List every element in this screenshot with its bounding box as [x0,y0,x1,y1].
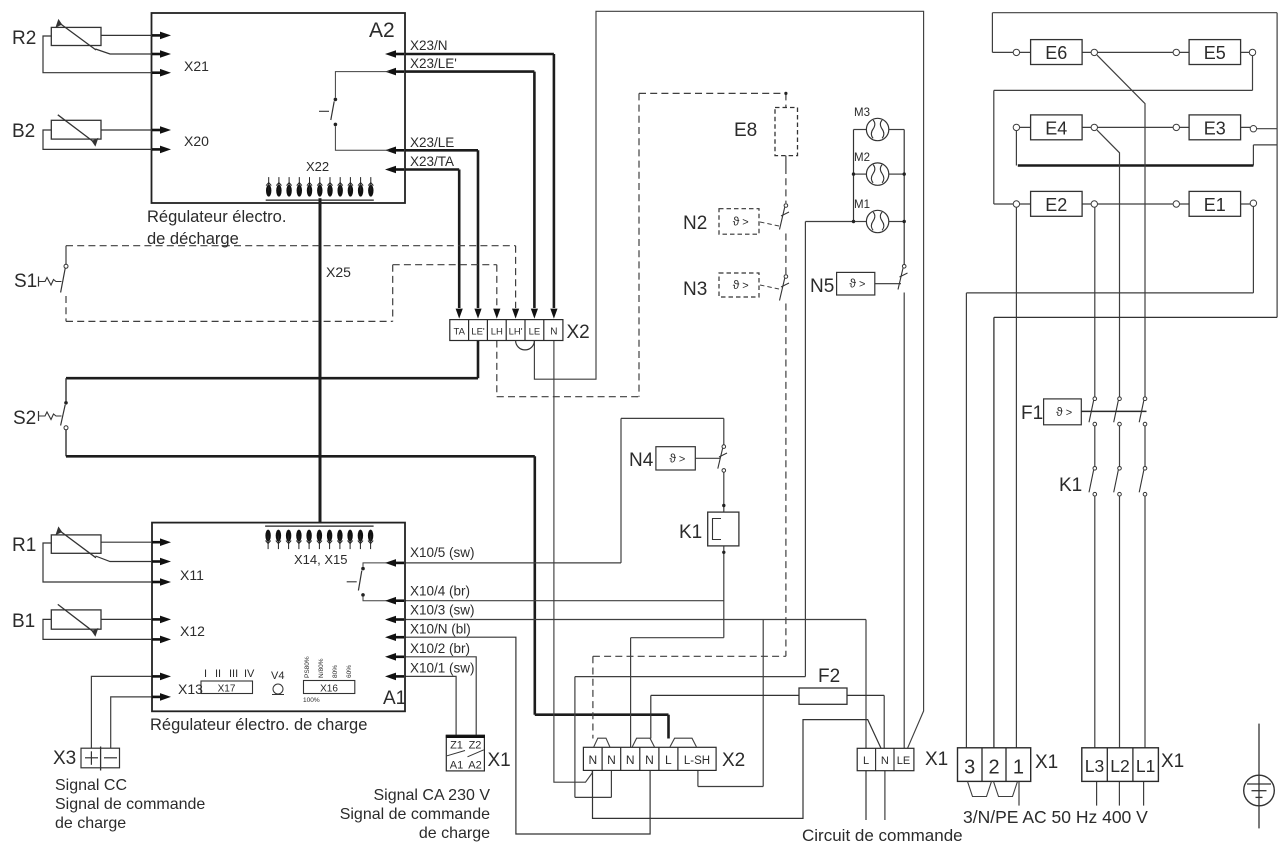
plug hook below X1 terminals 3-2 [968,781,992,796]
terminal arrow X2 upper [512,309,519,319]
connector arrow pin X10/3 [394,618,404,621]
terminal X1 (L3 L2 L1 mains) [1082,748,1159,782]
connector arrow pin X21.3 [152,71,162,74]
svg-text:>: > [742,216,748,228]
svg-text:X1: X1 [488,750,511,771]
wire S1 dashed loop bottom [66,320,393,322]
svg-text:60%: 60% [346,665,353,678]
fan motor M2 [866,163,888,185]
junction above K1 coil [722,504,725,507]
connector arrow pin X21.2 [152,53,162,56]
connector arrow pin X10/1 [394,675,404,678]
wire through fuse F2 [651,694,884,696]
wire E4 right diagonal to F1 pole 2 [1097,130,1120,397]
wire fuse right into X1 N terminal [883,695,885,748]
wire M2 right stub [889,173,904,175]
fan motor M3 [866,118,888,140]
regulator A1 box [152,523,405,712]
wire R2 wiper to X21 pin2 [96,49,153,54]
connector arrow pin X21.1 [152,34,162,37]
wire riser into X2 lower L-SH bottom [697,770,699,786]
connector arrow pin X13.2 [152,696,162,699]
wire S1 dashed loop top [66,245,516,247]
thermostat N2 [719,209,759,235]
wire into plug hook over L [667,715,670,739]
wire below X1 L [865,771,867,820]
connector X14/X15 pin row [265,526,374,549]
wire top rail [992,12,1277,14]
wire X25 ribbon cable A2 to A1 [319,198,322,522]
terminal circle heater bank [1013,124,1019,130]
wire X2 upper N down to lower X2 N cell [554,341,592,783]
wire L-SH loop horizontal [698,786,763,788]
wire M1 feed horizontal [805,221,853,223]
wire E3 row [1180,126,1251,128]
heating element E2 [1031,191,1083,216]
svg-text:>: > [1066,407,1072,419]
wire E6 right diagonal to F1 pole 3 [1097,55,1145,397]
wire fan right bus down to N5 switch [903,130,905,265]
wire N5 to its switch [875,283,901,285]
wire S2 top to X2 LE&#39; bottom [66,377,478,380]
wire R1 wiper to X11 pin2 [96,556,153,562]
wire X23/TA vertical to X2 terminal TA [458,170,461,309]
svg-text:A2: A2 [369,19,395,42]
svg-text:Circuit de commande: Circuit de commande [802,826,963,845]
connector arrow pin X10/4 [394,599,404,602]
wire N4 switch to K1 coil [723,472,725,512]
svg-text:V4: V4 [271,670,284,682]
wire X10/1 (sw) to X1 Z1 [405,676,456,735]
wire N4 to its switch [695,457,720,459]
connector arrow pin X10/2 [394,655,404,658]
svg-text:N: N [626,753,635,767]
connector arrow pin X11.2 [152,560,162,563]
plug hook over X2 lower N1-N2 [594,738,610,747]
svg-text:I: I [204,668,207,680]
terminal circle heater bank [1173,124,1179,130]
svg-text:80%: 80% [332,665,339,678]
wire fuse left into X2 lower N4 plug [650,695,652,738]
wire E6 to E5 [1098,51,1173,53]
wire second rail drop to E2 [993,90,995,204]
svg-text:X1: X1 [1035,752,1058,773]
svg-text:X10/3 (sw): X10/3 (sw) [410,603,475,618]
plug hook below X1 terminals 2-1 [994,781,1018,796]
thermostat N3 [719,273,759,297]
terminal circle heater bank [1173,201,1179,207]
svg-text:X23/LE: X23/LE [410,135,454,150]
heating element E5 [1189,40,1241,65]
wire thick mid rail [1018,164,1254,166]
K1 contactor pole [1139,467,1147,497]
terminal X1 (L N LE control circuit) [857,748,914,770]
wire dashed below X2 LH [496,341,498,397]
svg-text:L: L [665,753,672,767]
svg-text:X10/2 (br): X10/2 (br) [410,641,470,656]
connector arrow pin X10/5 [394,562,404,565]
wire dashed drop to X2 LH&#39; [515,246,517,308]
terminal X1 (3 2 1 mains) [958,748,1031,782]
indicator V4 [271,670,284,695]
svg-text:R1: R1 [12,535,36,556]
wire down to X1 terminal 3 [965,293,967,748]
wire edge rail return [994,316,1277,318]
wire R1 to X11 pin1 [101,541,152,543]
svg-text:>: > [679,453,685,465]
svg-text:Signal de commande: Signal de commande [340,806,490,823]
svg-text:LE: LE [897,755,910,767]
K1 contactor pole [1089,467,1097,497]
svg-text:III: III [229,668,238,680]
terminal circle heater bank [1250,200,1256,206]
terminal circle heater bank [1173,49,1179,55]
wire B1 return to X12 pin2 [43,619,152,639]
F1 pole contact [1114,397,1122,426]
wire below X1 N [884,771,886,820]
wire L line down to X1 L terminal [865,620,867,749]
svg-text:B2: B2 [12,121,35,142]
F1 trip bar [1081,410,1146,412]
junction fan right bus M2 [903,172,906,175]
svg-text:X2: X2 [722,750,745,771]
wire X10/N (bl) to X2 lower N4 bottom [405,637,650,834]
svg-text:ϑ: ϑ [733,214,740,228]
wire M3 left stub [854,129,867,131]
svg-text:K1: K1 [1059,475,1082,496]
connector X17 with positions I II III IV [201,668,255,695]
connector arrow pin X11.1 [152,541,162,544]
wire dashed E8 branch vertical [638,93,640,396]
wire X2 LE to LE terminal (long PE run) [534,11,923,748]
svg-text:X3: X3 [53,748,76,769]
thermostat N5 [837,272,875,295]
wire riser into X2 lower N2 bottom [610,770,612,797]
wire PE below X1 terminal 1 [1018,781,1020,805]
wire E4 row [1020,126,1091,128]
svg-text:Régulateur électro. de charge: Régulateur électro. de charge [150,716,367,734]
svg-text:TA: TA [453,327,465,338]
switch contact of N2 [780,204,790,230]
svg-text:1: 1 [1013,757,1024,779]
junction fan right bus M1 [903,220,906,223]
wire E6 row [1020,51,1091,53]
svg-text:N4: N4 [629,450,654,471]
svg-text:S1: S1 [14,271,37,292]
svg-text:L: L [863,755,869,767]
svg-text:M2: M2 [854,152,870,164]
wire X23/N vertical to X2 terminal N [553,54,556,308]
svg-text:100%: 100% [303,697,320,704]
wire X10/2 (br) to X1 Z2 [405,657,476,735]
svg-text:X10/5 (sw): X10/5 (sw) [410,545,475,560]
svg-text:X11: X11 [180,567,204,583]
wire F1 to K1 pole [1119,426,1121,467]
svg-text:X23/N: X23/N [410,38,448,53]
wire B2 return to X20 pin2 [43,130,152,149]
svg-text:F2: F2 [818,666,840,687]
svg-text:X23/LE': X23/LE' [410,56,457,71]
wire E1 right drop [1252,207,1254,293]
wire riser into X2 LE&#39; cell bottom [477,341,480,379]
svg-text:ϑ: ϑ [849,277,856,291]
svg-text:ϑ: ϑ [733,278,740,292]
wire below L3 [1096,781,1098,805]
svg-text:X10/N (bl): X10/N (bl) [410,622,471,637]
wire K1 pole down to X1 terminal [1119,497,1121,748]
svg-text:Signal de commande: Signal de commande [55,796,205,813]
wire into N4 switch [723,418,725,444]
svg-text:X10/1 (sw): X10/1 (sw) [410,661,475,676]
svg-text:X25: X25 [326,264,351,280]
terminal X3 (DC control signal) [81,747,120,771]
fuse F2 [799,688,847,704]
svg-text:N: N [607,753,616,767]
connector arrow pin X20.2 [152,148,162,151]
svg-text:3/N/PE AC 50 Hz 400 V: 3/N/PE AC 50 Hz 400 V [963,807,1148,827]
wire E3 right to edge rail [1257,128,1277,130]
svg-text:R2: R2 [12,28,36,49]
switch S2 (charge enable contact) [39,401,69,430]
svg-text:X10/4 (br): X10/4 (br) [410,584,470,599]
switch contact of N4 [718,445,727,472]
connector arrow pin X23/LE [394,149,404,152]
terminal circle heater bank [1013,201,1019,207]
svg-text:L3: L3 [1085,756,1104,776]
svg-text:2: 2 [988,757,999,779]
connector arrow pin X23/N [394,53,404,56]
wire E2 right down to F1 pole 1 [1094,207,1096,397]
svg-text:E2: E2 [1045,195,1067,215]
junction at E8 top corner [784,92,787,95]
svg-text:ϑ: ϑ [1056,405,1063,419]
heating element E3 [1189,115,1241,140]
switch S1 (room thermostat contact) [39,264,69,292]
svg-text:A1: A1 [383,688,406,709]
wire E5 right drop [1252,56,1254,91]
wire S2 upper lead [65,378,67,401]
wire E2 row [1020,203,1091,205]
wire dashed into plug hook over N [592,656,594,738]
svg-text:E6: E6 [1045,43,1067,63]
connector arrow pin X20.1 [152,129,162,132]
connector arrow pin X12.2 [152,638,162,641]
wire dashed E8 top lead [785,93,787,107]
connector arrow pin X23/TA [394,168,404,171]
wire dashed N2 to N3 switch [785,234,787,276]
wire E2 left down to X1 terminal 1 [1015,207,1017,748]
svg-text:N2: N2 [683,213,707,234]
wire below L2 [1118,781,1120,805]
wire X23/N horizontal [405,53,554,56]
terminal strip X2 (upper, TA LE' LH LH' LE N) [450,320,563,341]
wire below L1 [1143,781,1145,805]
svg-text:B1: B1 [12,611,35,632]
wire fan return horizontal [575,676,806,678]
wire S2 vertical drop [533,456,536,714]
svg-text:M3: M3 [854,107,870,119]
wire top rail drop to E6 [991,13,993,53]
wire X23/LE&#39; horizontal [405,70,534,73]
thermistor B1 (charge sensor) [51,610,101,629]
wire X23/LE horizontal [405,149,478,152]
switch inside A2 (discharge control contact) [319,72,389,151]
ground (protective earth symbol) [1244,724,1275,829]
wire F1 to K1 pole [1094,426,1096,467]
wire K1 coil return [723,546,725,638]
svg-text:IV: IV [244,668,255,680]
wire branch to fuse and L-SH [762,620,764,787]
svg-text:X21: X21 [184,58,209,74]
wire dashed to E8 top [639,92,786,94]
junction fan left bus M2 [852,172,855,175]
terminal circle heater bank [1249,49,1255,55]
terminal circle heater bank [1013,49,1019,55]
terminal strip X2 (lower, N N N N L L-SH) [583,747,716,770]
svg-text:X2: X2 [567,322,590,343]
svg-text:II: II [215,668,221,680]
svg-text:ϑ: ϑ [669,451,676,465]
svg-text:LH: LH [491,327,503,338]
svg-text:N: N [645,753,654,767]
K1 contactor pole [1114,467,1122,497]
svg-text:N: N [588,753,597,767]
heating element E4 [1031,115,1083,140]
svg-text:S2: S2 [13,408,36,429]
terminal arrow X2 upper [474,309,481,319]
svg-text:E1: E1 [1204,195,1226,215]
wire S1 upper lead [65,246,67,264]
wire down to X1 terminal 2 [993,317,995,747]
wire over N4 [621,417,724,419]
wire B2 to X20 pin1 [101,129,152,131]
wire S1 dashed riser [392,265,394,322]
svg-text:M1: M1 [854,199,870,211]
wire E4 to E3 [1098,126,1173,128]
svg-text:E5: E5 [1204,43,1226,63]
svg-text:K1: K1 [679,522,702,543]
connector arrow pin X13.1 [152,675,162,678]
wire jog drop [1252,145,1254,166]
wire K1 pole down to X1 terminal [1144,497,1146,748]
svg-text:L-SH: L-SH [684,755,710,767]
plug hook over X2 lower L/L-SH [670,738,697,747]
svg-text:Régulateur électro.: Régulateur électro. [147,208,286,226]
terminal arrow X2 upper [531,309,538,319]
connector arrow pin X11.3 [152,581,162,584]
wire X10/4 (br) to K1 branch [405,600,724,602]
svg-text:X22: X22 [306,159,329,174]
wire dashed LH to E8 branch horizontal [497,396,639,398]
wire X23/TA horizontal [405,168,459,171]
svg-text:A2: A2 [468,759,481,771]
svg-text:X12: X12 [180,623,205,639]
svg-text:E4: E4 [1045,118,1067,138]
svg-text:N3: N3 [683,279,707,300]
connector X22 pin row [266,177,374,200]
svg-text:3: 3 [964,757,975,779]
svg-text:>: > [742,280,748,292]
wire S2 lower lead [65,430,67,456]
wire M3 right stub [889,129,904,131]
jumper link LH&#39;-LE on X2 [516,341,535,350]
wire fan left bus [853,130,855,222]
wire E1 return rail [966,292,1253,294]
wire R2 to X21 pin1 [101,34,152,36]
svg-text:X1: X1 [1161,751,1184,772]
plug hook over X2 lower N3-N4 [632,738,654,747]
wire jog to thick rail [1253,144,1277,146]
svg-text:N: N [550,327,557,338]
svg-text:A1: A1 [450,759,463,771]
heating element E6 [1031,40,1083,65]
wire X23/LE&#39; vertical to X2 terminal LE [533,72,536,308]
F1 pole contact [1089,397,1097,426]
junction below K1 coil [722,551,725,554]
wire K1 pole down to X1 terminal [1094,497,1096,748]
wire second rail [994,89,1253,91]
wire fan return vertical [804,222,806,677]
wire X10/5 (sw) [405,562,621,564]
connector arrow pin X23/LE&#39; [394,70,404,73]
wire fan return drop [574,677,576,798]
svg-text:X20: X20 [184,133,209,149]
svg-text:de charge: de charge [419,825,490,842]
relay coil K1 [708,512,739,546]
wire fan return under X2 lower [575,796,612,798]
wire dashed return to X2 lower [593,655,786,657]
wire M1 right stub [889,221,904,223]
wire X2 lower N1 to X1 N terminal [593,720,882,819]
connector X16 with tap labels [303,656,355,704]
svg-text:Signal CC: Signal CC [55,777,127,794]
svg-text:LH': LH' [509,327,523,338]
wire E8 bottom lead [785,156,787,167]
svg-text:F1: F1 [1021,403,1043,424]
resistor R2 (setpoint potentiometer) [51,27,101,45]
wire N2 to its switch [760,222,779,226]
svg-text:N: N [881,755,889,767]
terminal arrow X2 upper [550,309,557,319]
switch contact of N3 [780,275,790,301]
svg-text:X1: X1 [925,749,948,770]
wire M1 left stub [854,221,867,223]
svg-text:Signal CA 230 V: Signal CA 230 V [373,787,490,804]
resistor R1 (charge potentiometer) [51,535,101,553]
wire N5 switch down to X1 LE terminal [903,293,905,749]
wire F1 to K1 pole [1144,426,1146,467]
wire S2 bottom horizontal [66,455,535,458]
heater E8 (optional, dashed) [775,108,798,156]
svg-text:LE': LE' [471,327,485,338]
wire riser to N4 [620,418,622,563]
F1 pole contact [1139,397,1147,426]
switch contact of N5 [898,265,908,290]
wire X13 minus to X3 [111,697,152,748]
connector arrow pin X10/N [394,636,404,639]
svg-text:de décharge: de décharge [147,230,239,248]
wire R1 return to X11 pin3 [43,543,152,582]
svg-text:E8: E8 [734,120,757,141]
wire into E2 left terminal [994,203,1013,205]
wire X10/3 (sw) L line [405,619,866,621]
terminal circle heater bank [1091,49,1097,55]
wire S1 lower lead [65,296,67,321]
svg-text:PS80%: PS80% [304,656,311,678]
svg-text:E3: E3 [1204,118,1226,138]
svg-text:LE: LE [529,327,541,338]
wire dashed E8 to N2 switch [785,167,787,203]
